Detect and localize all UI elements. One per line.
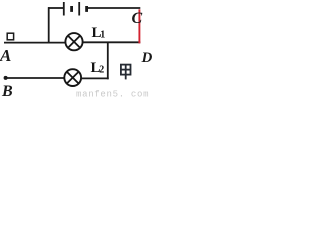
wire CD (red vertical segment)	[138, 9, 140, 43]
node B terminal dot	[4, 76, 8, 80]
wire: horizontal from lamp L1 to node D	[83, 41, 141, 43]
wire: horizontal B wire from dot to lamp L2	[6, 77, 65, 79]
wire: left vertical from top corner down to node on A wire	[48, 7, 50, 43]
label 甲 (figure marker, drawn glyph)	[121, 65, 131, 80]
lamp L1	[65, 33, 82, 50]
terminal square on wire at A	[7, 33, 13, 40]
wire: mid vertical joining L2 branch up to L1 wire	[107, 42, 109, 79]
svg-text:D: D	[141, 50, 153, 66]
lamp L2	[64, 69, 81, 86]
wire: top right horizontal from battery to corner C	[87, 7, 140, 9]
svg-text:1: 1	[100, 29, 105, 40]
wire: horizontal from lamp L2 to mid vertical	[81, 77, 109, 79]
wire: top left horizontal from corner to battery	[48, 7, 64, 9]
wire: horizontal A wire from left end to lamp L1	[4, 42, 66, 44]
svg-text:2: 2	[99, 65, 104, 76]
svg-text:B: B	[1, 83, 13, 99]
svg-text:A: A	[0, 46, 11, 65]
battery (two cells)	[64, 2, 87, 16]
svg-text:C: C	[132, 10, 143, 27]
svg-text:manfen5. com: manfen5. com	[76, 90, 149, 100]
